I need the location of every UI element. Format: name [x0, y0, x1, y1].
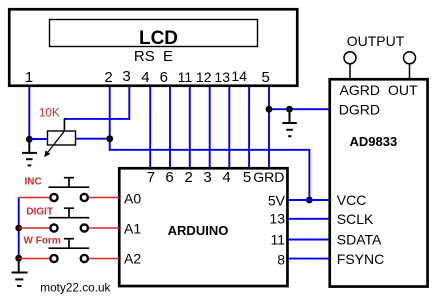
svg-text:4: 4	[222, 169, 230, 186]
svg-text:INC: INC	[25, 177, 42, 188]
wire terminal 1 stub	[349, 64, 351, 79]
node junction bus/A2 row	[15, 255, 22, 262]
node junction pot/5V	[106, 135, 113, 142]
wire LCD pin14 to Arduino 5	[248, 87, 250, 168]
wire Arduino 11 to AD9833 SDATA	[288, 239, 330, 241]
svg-text:12: 12	[196, 69, 212, 85]
pushbutton SW1 INC	[49, 178, 90, 201]
svg-text:6: 6	[165, 169, 173, 186]
node junction pin5/DGRD	[266, 106, 273, 113]
wire button bus	[18, 198, 20, 259]
svg-text:3: 3	[203, 169, 211, 186]
wire Arduino 13 to AD9833 SCLK	[288, 218, 330, 220]
svg-text:OUTPUT: OUTPUT	[347, 33, 405, 49]
Arduino box	[119, 168, 287, 286]
svg-text:SDATA: SDATA	[337, 232, 382, 248]
svg-text:W Form: W Form	[24, 236, 61, 247]
svg-text:11: 11	[178, 69, 193, 85]
wire ground bus to AD9833 DGRD	[269, 108, 330, 110]
wire LCD pin5 to Arduino GRD	[268, 87, 270, 168]
svg-text:RS: RS	[134, 48, 155, 65]
wire pot left terminal	[29, 138, 47, 140]
svg-text:A2: A2	[124, 251, 141, 267]
svg-text:GRD: GRD	[253, 169, 284, 185]
wire LCD pin4 to Arduino 7	[149, 87, 151, 168]
svg-text:8: 8	[277, 252, 285, 268]
wire LCD pin11 to Arduino 2	[189, 87, 191, 168]
AD9833 box	[330, 79, 428, 286]
svg-text:1: 1	[25, 69, 33, 86]
wire Arduino 5V to AD9833 VCC	[288, 199, 330, 201]
svg-text:A1: A1	[124, 221, 141, 237]
svg-text:5: 5	[243, 169, 251, 186]
svg-text:ARDUINO: ARDUINO	[168, 223, 229, 238]
wire Arduino 8 to AD9833 FSYNC	[288, 258, 330, 260]
LCD module box	[9, 9, 297, 86]
output terminal circle 1	[344, 52, 356, 64]
svg-text:SCLK: SCLK	[337, 211, 374, 227]
wire bus to SW3	[19, 258, 50, 260]
svg-text:VCC: VCC	[337, 192, 367, 208]
wire SW1 to A0	[89, 197, 119, 199]
svg-text:LCD: LCD	[139, 28, 178, 49]
pushbutton SW2 DIGIT	[49, 208, 90, 231]
svg-text:E: E	[163, 48, 173, 65]
svg-text:10K: 10K	[39, 107, 60, 120]
wire LCD pin2 to 5V rail	[110, 87, 310, 200]
output terminal circle 2	[404, 52, 416, 64]
svg-text:A0: A0	[124, 191, 141, 207]
svg-text:5V: 5V	[268, 193, 286, 209]
wire LCD pin12 to Arduino 3	[209, 87, 211, 168]
svg-text:2: 2	[104, 69, 112, 86]
svg-text:AD9833: AD9833	[350, 134, 398, 149]
wire terminal 2 stub	[409, 64, 411, 79]
wire LCD pin1 to ground	[28, 87, 30, 139]
svg-text:AGRD: AGRD	[340, 82, 380, 98]
pushbutton SW3 W Form	[49, 239, 90, 262]
LCD display inner rectangle	[50, 20, 258, 47]
wire bus to SW2	[19, 227, 50, 229]
node junction bus/A1 row	[15, 225, 22, 232]
svg-text:FSYNC: FSYNC	[337, 251, 384, 267]
svg-text:3: 3	[122, 68, 130, 85]
wire LCD pin13 to Arduino 4	[228, 87, 230, 168]
ground G2	[12, 258, 28, 286]
svg-text:OUT: OUT	[388, 82, 418, 98]
svg-text:5: 5	[262, 69, 270, 86]
svg-text:13: 13	[269, 211, 285, 227]
wire bus to SW1	[19, 197, 50, 199]
node junction ground tap	[286, 106, 293, 113]
svg-text:4: 4	[141, 69, 149, 86]
svg-text:DIGIT: DIGIT	[26, 207, 53, 218]
ground G1	[22, 139, 37, 165]
potentiometer R1 10K	[44, 119, 75, 158]
node junction pin1/pot	[26, 136, 33, 143]
svg-text:14: 14	[231, 68, 247, 84]
svg-text:2: 2	[185, 169, 193, 186]
wire pot right terminal	[76, 138, 110, 140]
svg-text:7: 7	[147, 169, 155, 186]
svg-text:11: 11	[270, 232, 285, 248]
svg-text:DGRD: DGRD	[339, 102, 380, 118]
node junction 5V/VCC	[306, 197, 313, 204]
wire SW2 to A1	[89, 227, 119, 229]
svg-text:6: 6	[160, 69, 168, 86]
svg-text:13: 13	[214, 69, 230, 85]
ground G3	[282, 109, 296, 136]
wire SW3 to A2	[89, 258, 119, 260]
svg-text:moty22.co.uk: moty22.co.uk	[40, 281, 110, 295]
wire LCD pin3 to pot wiper	[64, 87, 129, 119]
wire LCD pin6 to Arduino 6	[169, 87, 171, 168]
